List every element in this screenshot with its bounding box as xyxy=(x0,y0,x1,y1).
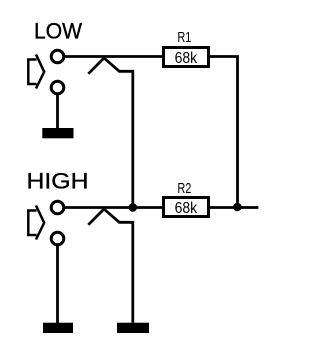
svg-text:HIGH: HIGH xyxy=(27,169,89,194)
svg-text:R2: R2 xyxy=(177,181,191,197)
svg-text:68k: 68k xyxy=(175,200,198,217)
svg-text:LOW: LOW xyxy=(34,19,82,44)
svg-text:R1: R1 xyxy=(177,30,191,46)
svg-text:68k: 68k xyxy=(175,50,198,67)
